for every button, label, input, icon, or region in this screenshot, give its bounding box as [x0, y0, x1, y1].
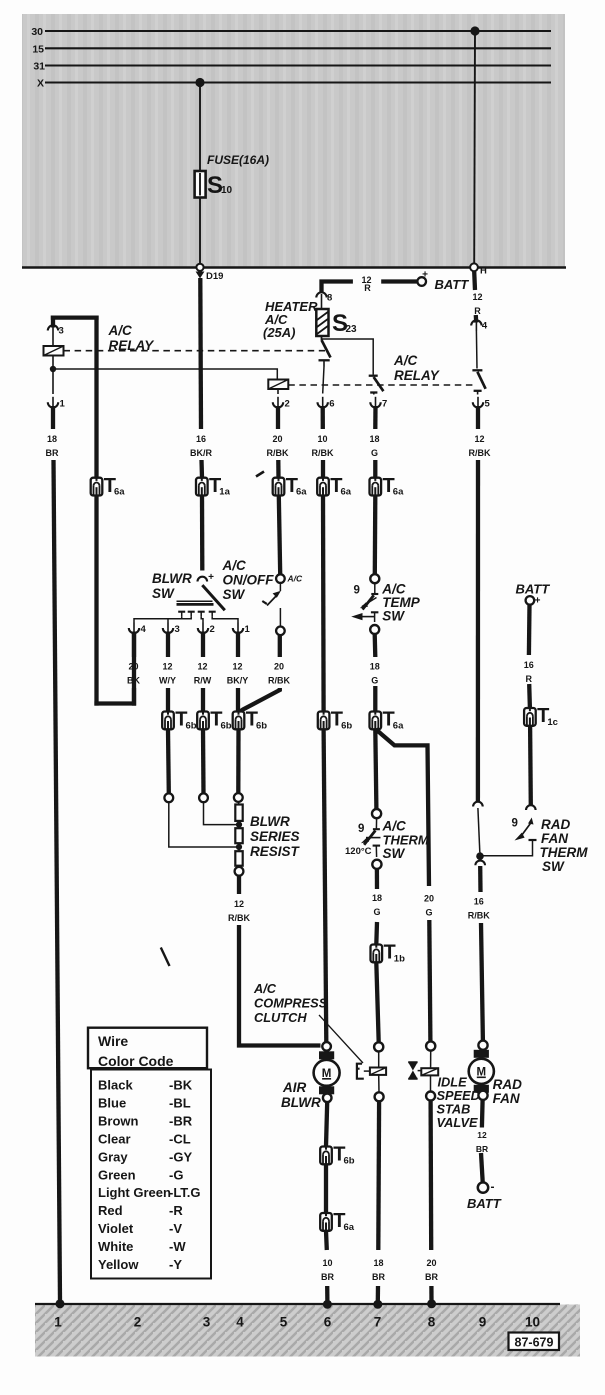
bus 30: [45, 30, 551, 32]
relay 1 dashed linkage: [64, 350, 326, 352]
svg-text:-: -: [491, 1180, 495, 1194]
svg-text:BR: BR: [425, 1272, 438, 1282]
wire fuse S10 to D19: [199, 198, 201, 264]
svg-text:-GY: -GY: [169, 1149, 192, 1164]
svg-text:1: 1: [245, 624, 251, 635]
svg-text:Gray: Gray: [98, 1149, 128, 1164]
svg-text:SW: SW: [152, 586, 175, 601]
wire 20 BK (term4): [132, 632, 136, 658]
blower resistor terminal circles: [164, 793, 173, 802]
A/C relay coil 1: [52, 336, 54, 346]
svg-text:BLWR: BLWR: [250, 814, 290, 829]
connector arrow 3 (BLWR): [167, 623, 169, 633]
svg-text:White: White: [98, 1239, 133, 1254]
svg-text:Yellow: Yellow: [98, 1257, 139, 1272]
svg-text:12: 12: [232, 662, 242, 672]
svg-text:7: 7: [382, 398, 387, 409]
wire T6b to T6a: [324, 1164, 328, 1213]
bus 15: [45, 47, 551, 49]
terminal dot 8: [427, 1299, 436, 1308]
svg-text:6b: 6b: [221, 721, 232, 732]
power supply band (hatched): [22, 14, 565, 268]
svg-text:A/C: A/C: [393, 353, 418, 368]
wire 10 R/BK: [321, 406, 325, 429]
wire 12 R/BK resistor to blower motor: [237, 876, 241, 894]
junction on bus 30: [470, 26, 479, 35]
svg-text:Green: Green: [98, 1167, 136, 1182]
svg-text:6b: 6b: [256, 721, 267, 732]
svg-text:-BR: -BR: [169, 1113, 193, 1128]
svg-text:23: 23: [346, 324, 358, 335]
svg-text:6a: 6a: [341, 487, 352, 498]
svg-text:20: 20: [128, 662, 138, 672]
svg-text:G: G: [371, 676, 378, 686]
svg-text:20: 20: [272, 434, 282, 444]
connector arrow 1: [52, 372, 54, 394]
svg-text:2: 2: [210, 624, 215, 635]
wire THERM SW down 18 G: [375, 869, 379, 889]
svg-text:12: 12: [472, 292, 482, 302]
wire contact to arrow 3: [168, 617, 191, 623]
svg-text:-LT.G: -LT.G: [169, 1185, 201, 1200]
svg-text:RAD: RAD: [493, 1077, 522, 1092]
ground track band: [35, 1305, 580, 1357]
svg-text:-Y: -Y: [169, 1257, 182, 1272]
wire T6a down 18 G to therm switch: [375, 729, 376, 809]
svg-text:BK/Y: BK/Y: [227, 676, 249, 686]
svg-text:SW: SW: [223, 587, 246, 602]
svg-text:G: G: [373, 907, 380, 917]
wire T1a to BLWR SW: [200, 496, 205, 571]
svg-text:10: 10: [221, 185, 233, 196]
svg-text:7: 7: [374, 1315, 382, 1330]
bus 31: [45, 64, 551, 66]
radiator fan thermo switch RAD FAN THERM SW: [526, 805, 536, 810]
diagram number 87-679: [509, 1333, 560, 1351]
wire T6a to A/C ON/OFF SW: [279, 496, 280, 575]
svg-text:6a: 6a: [393, 487, 404, 498]
stray mark 1: [161, 948, 170, 967]
wire 12 R/BK (right): [476, 406, 480, 429]
svg-text:8: 8: [327, 293, 332, 304]
svg-text:R/BK: R/BK: [468, 911, 490, 921]
svg-text:16: 16: [196, 434, 206, 444]
svg-text:1a: 1a: [219, 487, 230, 498]
radiator fan motor RAD FAN: [478, 1041, 487, 1050]
blower series resistor BLWR SERIES RESIST: [238, 802, 240, 805]
wire S23 to BATT+: [322, 282, 353, 294]
wire T6b down BK/Y: [236, 729, 240, 793]
connector T6a (18 G): [370, 478, 382, 496]
svg-text:4: 4: [141, 624, 147, 635]
connector T6a (20 R/BK): [273, 478, 285, 496]
svg-text:-W: -W: [169, 1239, 186, 1254]
wire S23 node to switch7 top: [322, 339, 374, 375]
svg-text:BR: BR: [476, 1144, 488, 1154]
svg-text:R/BK: R/BK: [469, 448, 491, 458]
svg-text:12: 12: [197, 662, 207, 672]
svg-text:SW: SW: [542, 859, 565, 874]
svg-text:Black: Black: [98, 1078, 133, 1093]
A/C temperature switch A/C TEMP SW: [370, 574, 379, 583]
terminal dot 6: [323, 1300, 332, 1309]
svg-text:+: +: [208, 572, 214, 583]
svg-text:1: 1: [60, 398, 66, 409]
wire T6a down (10 R/BK): [321, 496, 326, 712]
svg-text:A/C: A/C: [287, 574, 304, 584]
svg-text:18: 18: [47, 434, 57, 444]
svg-text:5: 5: [280, 1315, 288, 1330]
svg-text:12: 12: [162, 662, 172, 672]
svg-text:Wire: Wire: [98, 1033, 128, 1049]
connector T6b (12 BK/Y): [233, 712, 245, 730]
svg-text:FUSE(16A): FUSE(16A): [207, 153, 269, 167]
svg-text:6b: 6b: [186, 721, 197, 732]
svg-text:BLWR: BLWR: [152, 571, 192, 586]
connector arrow 7: [375, 397, 377, 407]
svg-text:RESIST: RESIST: [250, 844, 301, 859]
svg-text:3: 3: [203, 1315, 211, 1330]
terminal dot 1: [56, 1299, 65, 1308]
wire color code table: [88, 1028, 207, 1069]
bus X: [45, 81, 551, 83]
svg-text:+: +: [535, 596, 541, 607]
svg-text:CLUTCH: CLUTCH: [254, 1010, 307, 1025]
svg-text:A/C: A/C: [382, 819, 407, 834]
wire to arrow 6: [323, 367, 324, 394]
wire 12 R/W: [201, 632, 205, 658]
svg-text:2: 2: [134, 1315, 142, 1330]
svg-text:3: 3: [59, 326, 64, 337]
svg-text:BATT: BATT: [435, 277, 470, 292]
svg-text:6: 6: [324, 1315, 332, 1330]
wire blower to T6b: [326, 1102, 327, 1146]
relay 2 dashed linkage: [288, 384, 473, 386]
svg-text:2: 2: [285, 398, 290, 409]
svg-text:-V: -V: [169, 1221, 182, 1236]
stray mark 2: [256, 472, 264, 477]
svg-text:SERIES: SERIES: [250, 829, 300, 844]
wire bus30 to H: [473, 31, 476, 263]
wire rad fan to BATT-, 12 BR: [480, 1100, 485, 1128]
connector T6b (10 R/BK): [318, 712, 330, 730]
svg-text:AIR: AIR: [282, 1080, 307, 1095]
connector T6a (10 R/BK): [317, 478, 329, 496]
idle speed stabilizer valve IDLE SPEED STAB VALVE: [426, 1041, 435, 1050]
connector T6b (12 W/Y): [162, 712, 174, 730]
svg-text:6a: 6a: [296, 487, 307, 498]
junction on bus X: [195, 78, 204, 87]
connector arrow 4 (right): [475, 322, 477, 331]
connector arrow 3: [52, 327, 54, 336]
callout line to clutch: [319, 1015, 363, 1063]
svg-text:R/BK: R/BK: [268, 676, 290, 686]
svg-text:6: 6: [329, 398, 334, 409]
junction to rad fan therm sw: [476, 852, 484, 860]
svg-text:Light Green: Light Green: [98, 1185, 171, 1200]
svg-text:FAN: FAN: [541, 831, 568, 846]
wire contact to arrow 2: [201, 617, 203, 623]
svg-text:18: 18: [370, 662, 380, 672]
svg-text:X: X: [37, 78, 44, 90]
blower switch BLWR SW: [198, 577, 208, 582]
connector T1a: [196, 478, 208, 496]
svg-text:+: +: [422, 270, 428, 281]
wire T6a to terminal 6, 10 BR: [324, 1231, 329, 1250]
svg-text:10: 10: [317, 434, 327, 444]
fuse S10 FUSE(16A): [195, 171, 206, 198]
svg-text:4: 4: [236, 1315, 244, 1330]
svg-text:5: 5: [485, 398, 491, 409]
connector T6a (18 G): [370, 712, 382, 730]
svg-text:4: 4: [482, 321, 488, 332]
svg-text:BR: BR: [321, 1272, 334, 1282]
svg-text:THERM: THERM: [540, 845, 589, 860]
svg-text:20: 20: [424, 894, 434, 904]
air blower motor AIR BLWR: [322, 1042, 331, 1051]
connector T6a (blower ground): [320, 1213, 332, 1231]
svg-text:H: H: [480, 266, 487, 277]
wire T1c to therm switch: [528, 726, 533, 806]
connector arrow 4 (BLWR): [133, 623, 135, 633]
svg-text:RELAY: RELAY: [394, 368, 441, 383]
svg-text:A/C: A/C: [222, 558, 247, 573]
svg-text:R/BK: R/BK: [228, 913, 250, 923]
wire 20 R/BK: [276, 406, 280, 429]
battery + terminal (top): [417, 277, 426, 286]
svg-text:R/BK: R/BK: [312, 448, 334, 458]
svg-text:Color Code: Color Code: [98, 1053, 174, 1069]
svg-text:BK/R: BK/R: [190, 448, 212, 458]
svg-text:31: 31: [33, 61, 45, 73]
connector T6b (blower ground): [320, 1147, 332, 1165]
svg-text:20: 20: [426, 1258, 436, 1268]
svg-text:FAN: FAN: [493, 1091, 520, 1106]
svg-text:Violet: Violet: [98, 1221, 134, 1236]
svg-text:9: 9: [358, 823, 364, 835]
link junction to A/C relay coil 2: [53, 369, 277, 380]
wire T6b down R/W: [201, 729, 206, 793]
connector T6a (relay leg): [91, 478, 103, 496]
svg-text:12: 12: [234, 899, 244, 909]
connector T6b (12 R/W): [197, 712, 209, 730]
node below S23: [321, 336, 323, 340]
svg-text:SW: SW: [382, 609, 405, 624]
svg-text:Brown: Brown: [98, 1113, 139, 1128]
svg-text:6a: 6a: [393, 721, 404, 732]
junction node below coil 1: [52, 356, 54, 373]
svg-text:RELAY: RELAY: [109, 338, 156, 353]
svg-text:D19: D19: [206, 271, 223, 282]
svg-text:A/C: A/C: [108, 323, 133, 338]
A/C relay coil 2: [268, 380, 288, 390]
svg-text:ON/OFF: ON/OFF: [223, 573, 275, 588]
svg-text:VALVE: VALVE: [437, 1115, 478, 1130]
svg-text:SW: SW: [383, 846, 406, 861]
connector arrow 1 (BLWR): [237, 623, 239, 633]
A/C ON/OFF switch: [276, 574, 285, 583]
wire down 16 R/BK: [478, 866, 483, 892]
connector H: [470, 263, 478, 271]
svg-text:Red: Red: [98, 1203, 123, 1218]
svg-text:6a: 6a: [344, 1222, 355, 1233]
A/C relay frame wire (to BLWR SW term 4): [51, 315, 99, 319]
wire T6a to A/C TEMP SW: [373, 496, 378, 575]
svg-text:BR: BR: [372, 1272, 385, 1282]
svg-text:RAD: RAD: [541, 817, 570, 832]
svg-text:15: 15: [32, 43, 44, 55]
connector arrow 8: [321, 294, 323, 303]
svg-text:12: 12: [477, 1130, 487, 1140]
svg-text:R: R: [526, 674, 533, 684]
svg-text:-G: -G: [169, 1167, 183, 1182]
wire T6b down 10 R/BK to blower: [324, 729, 327, 1042]
connector T1c: [524, 708, 536, 726]
svg-text:16: 16: [524, 660, 534, 670]
svg-text:30: 30: [31, 26, 43, 38]
connector D19: [196, 264, 203, 271]
branch wire 20 G to idle valve: [376, 729, 429, 886]
svg-text:R/BK: R/BK: [267, 448, 289, 458]
wire T6b down W/Y: [166, 729, 171, 793]
svg-text:Clear: Clear: [98, 1131, 131, 1146]
wire 12 W/Y: [166, 632, 170, 658]
wire clutch to terminal 7, 18 BR: [376, 1101, 381, 1250]
wire 18 BR: [51, 406, 55, 429]
svg-text:BATT: BATT: [467, 1196, 502, 1211]
A/C compressor clutch A/C COMPRESS CLUTCH: [374, 1042, 383, 1051]
svg-text:-CL: -CL: [169, 1131, 191, 1146]
svg-text:(25A): (25A): [263, 325, 296, 340]
A/C thermal switch A/C THERM SW 120degC: [372, 809, 381, 818]
svg-text:BR: BR: [46, 448, 59, 458]
svg-text:9: 9: [512, 818, 518, 830]
battery - terminal (bottom): [478, 1182, 488, 1192]
wire 16 BK/R: [198, 278, 203, 429]
svg-text:10: 10: [525, 1315, 540, 1330]
svg-text:R: R: [474, 306, 481, 316]
svg-text:6a: 6a: [114, 487, 125, 498]
svg-text:A/C: A/C: [253, 981, 277, 996]
svg-text:18: 18: [373, 1258, 383, 1268]
wire A/C sw to T6b, 20 R/BK: [278, 635, 282, 657]
svg-text:9: 9: [354, 585, 360, 597]
wire 12 BK/Y: [236, 632, 240, 658]
wire 18 G: [373, 406, 378, 429]
svg-text:R/W: R/W: [194, 676, 212, 686]
wire H down, 12 R: [472, 272, 477, 291]
svg-text:W/Y: W/Y: [159, 676, 176, 686]
relay contact switch (arrow 7): [369, 375, 378, 377]
connector arrow 5: [477, 397, 479, 407]
wire contact to arrow 4: [134, 617, 182, 623]
svg-text:1b: 1b: [394, 954, 405, 965]
svg-text:1c: 1c: [547, 717, 558, 728]
wire T1b to clutch: [376, 962, 378, 1042]
svg-text:-BL: -BL: [169, 1095, 191, 1110]
connector T1b: [371, 945, 383, 963]
svg-text:3: 3: [175, 624, 180, 635]
svg-text:R: R: [364, 283, 371, 293]
svg-text:120°C: 120°C: [345, 846, 372, 857]
svg-text:G: G: [425, 908, 432, 918]
svg-text:COMPRESS: COMPRESS: [254, 996, 328, 1011]
svg-text:6b: 6b: [344, 1156, 355, 1167]
svg-text:87-679: 87-679: [515, 1336, 554, 1350]
wire valve to terminal 8, 20 BR: [428, 1101, 433, 1251]
fuse S23 HEATER A/C (25A): [321, 303, 323, 310]
heater A/C switch contact (S23 relay contact): [322, 340, 331, 358]
svg-text:BK: BK: [127, 676, 140, 686]
svg-text:18: 18: [369, 434, 379, 444]
svg-text:1: 1: [54, 1315, 62, 1330]
svg-text:G: G: [371, 448, 378, 458]
wire contact to arrow 1: [212, 617, 238, 623]
terminal dot 7: [373, 1300, 382, 1309]
inline connector hooks (12 R/BK): [473, 802, 483, 807]
wire busX to fuse S10: [199, 83, 201, 172]
svg-text:-BK: -BK: [169, 1078, 193, 1093]
connector arrow 6: [322, 397, 324, 407]
svg-text:16: 16: [474, 897, 484, 907]
svg-text:10: 10: [322, 1258, 332, 1268]
svg-text:Blue: Blue: [98, 1095, 126, 1110]
connector arrow 2 (BLWR): [202, 623, 204, 633]
svg-text:-R: -R: [169, 1203, 183, 1218]
svg-text:6b: 6b: [341, 721, 352, 732]
wire TEMP SW down 18 G: [373, 634, 378, 657]
svg-text:18: 18: [372, 893, 382, 903]
relay contact switch (arrow 5): [475, 331, 478, 369]
connector arrow 2: [277, 389, 279, 394]
svg-text:12: 12: [474, 434, 484, 444]
svg-text:BATT: BATT: [516, 582, 551, 597]
svg-text:8: 8: [428, 1315, 436, 1330]
svg-text:9: 9: [479, 1315, 487, 1330]
svg-text:BLWR: BLWR: [281, 1095, 321, 1110]
svg-text:20: 20: [274, 662, 284, 672]
